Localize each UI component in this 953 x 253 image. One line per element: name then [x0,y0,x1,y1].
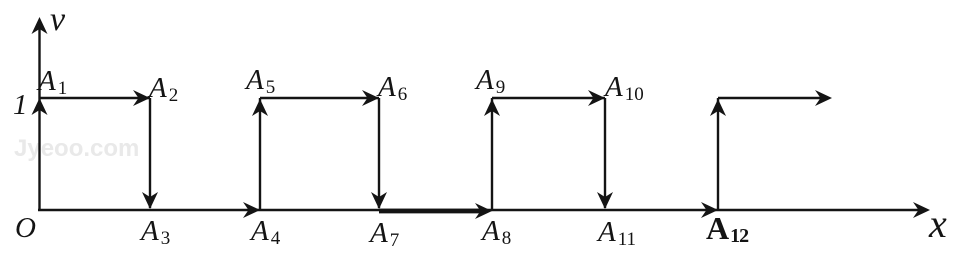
arrowhead at A2 [133,90,150,106]
svg-text:A12: A12 [706,210,749,247]
thick wire A7 to A8 [379,209,484,214]
wire A4 to A5 (up) [259,98,261,210]
arrowhead A11 to A12 (right along axis) [701,202,718,218]
svg-text:x: x [928,201,947,246]
svg-text:A5: A5 [244,64,275,98]
svg-text:A6: A6 [376,71,407,105]
x-axis [38,209,923,211]
arrowhead A3 to A4 (right along axis) [243,202,260,218]
arrowhead at A8 [475,203,492,219]
wire A12 up [717,98,719,210]
x-axis arrowhead [913,202,930,218]
wire A2 to A3 (down) [149,98,151,208]
svg-text:A11: A11 [596,216,636,250]
svg-text:v: v [50,1,66,38]
svg-text:A9: A9 [474,64,505,98]
wire A10 to A11 (down) [604,98,606,208]
svg-text:A1: A1 [36,65,67,99]
svg-text:A7: A7 [368,217,399,251]
wire A9 to A10 [492,97,605,99]
wire A8 to A9 (up) [491,98,493,210]
svg-text:O: O [15,212,36,244]
svg-text:Jyeoo.com: Jyeoo.com [14,135,139,162]
arrowhead top of A12 vertical [710,99,726,116]
arrowhead end of top wire [815,90,832,106]
arrowhead at A6 [362,90,379,106]
wire from A12 top going right [718,97,824,99]
arrowhead at A3 [142,192,158,209]
wire A6 to A7 (down) [378,98,380,208]
arrowhead at A7 [371,192,387,209]
arrowhead at A5 [252,99,268,116]
y-axis (v) [38,26,40,211]
arrowhead at A11 [597,192,613,209]
y-axis arrowhead [32,17,48,34]
svg-text:A10: A10 [603,71,644,105]
arrowhead at A10 [588,90,605,106]
wire A5 to A6 [260,97,379,99]
svg-text:A8: A8 [480,215,511,249]
svg-text:A4: A4 [249,215,281,249]
arrowhead at A9 [484,99,500,116]
svg-text:A3: A3 [139,215,170,249]
wire A1 to A2 [40,97,151,99]
svg-text:1: 1 [13,89,28,121]
svg-text:A2: A2 [147,72,178,106]
arrow O to A1 (up along y-axis) [32,98,48,115]
